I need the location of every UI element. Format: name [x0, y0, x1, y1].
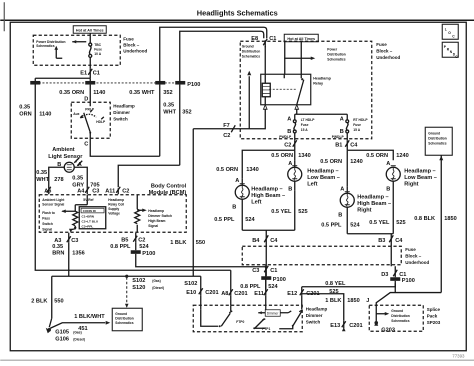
ground distribution arrow (relay coil ground) [247, 71, 251, 129]
svg-text:C3: C3 [252, 268, 259, 274]
svg-text:Power: Power [327, 47, 338, 51]
svg-text:Right: Right [357, 207, 371, 213]
wire 1 BLK 1850 from E12 area down to E13 [302, 294, 359, 321]
svg-text:C4: C4 [270, 238, 278, 244]
svg-text:0.35: 0.35 [19, 104, 30, 110]
connector B1|C4 (right fuse out) [335, 140, 358, 150]
svg-text:B4: B4 [252, 238, 260, 244]
terminal A4|C3 [77, 187, 99, 195]
wire BCM B5 524 routed right to E11 [136, 254, 266, 267]
svg-text:Left: Left [251, 199, 261, 205]
svg-text:Block –: Block – [405, 253, 422, 258]
wire 0.8 BLK 1850 down right side [439, 155, 443, 292]
svg-text:Aux: Aux [73, 112, 79, 116]
svg-text:B: B [338, 212, 342, 218]
svg-text:B: B [232, 204, 236, 210]
wire 0.35 GRY 705 (sensor A to BCM A4) [72, 167, 99, 188]
svg-text:C2: C2 [223, 133, 230, 139]
wire bottom right to splice pack [376, 293, 441, 306]
svg-text:0.8 PPL: 0.8 PPL [240, 284, 261, 290]
svg-text:Pass: Pass [42, 216, 50, 220]
label Splice Pack SP203 [427, 307, 441, 325]
svg-text:Distribution: Distribution [391, 314, 410, 318]
svg-text:Block –: Block – [376, 48, 393, 53]
svg-text:524: 524 [350, 222, 360, 228]
svg-text:Schematics: Schematics [242, 54, 260, 58]
svg-text:Underhood: Underhood [376, 55, 400, 60]
P100 blob (right, 525) [390, 266, 415, 284]
svg-text:Splice: Splice [427, 307, 441, 312]
svg-text:B5: B5 [121, 237, 128, 243]
BCM internal: flash-to-pass arrow and wire [61, 195, 87, 213]
svg-text:PRLP: PRLP [85, 107, 95, 111]
ground distribution schematics box (top right) [425, 127, 452, 155]
svg-text:Schematics: Schematics [391, 319, 409, 323]
svg-text:J: J [366, 298, 369, 304]
svg-text:Headlamp –: Headlamp – [404, 168, 435, 174]
svg-text:D: D [84, 96, 88, 102]
relay switch [284, 42, 304, 105]
svg-text:CONN ID: CONN ID [83, 209, 97, 213]
svg-text:Underhood: Underhood [405, 260, 429, 265]
svg-text:Headlamp: Headlamp [113, 103, 135, 108]
svg-text:PWDLP: PWDLP [332, 135, 345, 139]
svg-text:RT HDLP: RT HDLP [353, 118, 368, 122]
svg-text:1850: 1850 [347, 298, 359, 304]
svg-text:524: 524 [268, 284, 278, 290]
svg-text:Headlamp: Headlamp [108, 198, 124, 202]
label Headlamp Low Beam Left [307, 168, 340, 187]
label Headlamp Low Beam Right [404, 168, 437, 187]
dimmer2 internal: E12 lever [279, 305, 302, 329]
svg-text:(Diesel): (Diesel) [73, 337, 85, 341]
svg-text:Fuse: Fuse [123, 36, 134, 41]
BCM pin note Headlamp Relay Coil Supply Voltage [108, 198, 124, 216]
svg-text:A: A [386, 161, 390, 167]
terminal A11|C2 [105, 187, 129, 195]
svg-text:G105: G105 [55, 329, 69, 335]
svg-text:WHT: WHT [163, 109, 176, 115]
P100 blob (left, 524) [261, 266, 286, 289]
svg-text:F7: F7 [223, 123, 230, 129]
svg-text:HDLP: HDLP [96, 120, 106, 124]
svg-text:550: 550 [196, 240, 205, 246]
headlamp high beam right bulb [338, 186, 354, 234]
svg-text:Fuse: Fuse [301, 123, 309, 127]
svg-text:0.35 ORN: 0.35 ORN [59, 90, 84, 96]
wire 0.35 WHT 352 (first) [129, 85, 172, 157]
label Fuse Block Underhood (right) [376, 42, 400, 60]
Hot at All Times label (left) [73, 26, 106, 34]
svg-text:E10: E10 [186, 290, 196, 296]
BCM internal: A3 output wire with down arrow [69, 229, 73, 233]
svg-text:High Beam –: High Beam – [357, 201, 391, 207]
svg-text:Left: Left [307, 181, 317, 187]
svg-text:Supply: Supply [108, 207, 119, 211]
svg-text:Fuse: Fuse [376, 42, 387, 47]
svg-text:C1: C1 [270, 268, 277, 274]
ground G203 [374, 321, 395, 333]
svg-text:550: 550 [54, 298, 63, 304]
BCM pin note Flash to Pass Switch Signal [42, 211, 55, 232]
wire branch at y78 to left wire [35, 77, 90, 79]
wire from dimmer C down and right to WHT352 [90, 138, 160, 156]
svg-text:5V Ref: 5V Ref [83, 198, 94, 202]
svg-text:Pack: Pack [427, 313, 438, 318]
label Headlamp High Beam Right [357, 194, 391, 213]
wire 0.5 ORN 1240 branch (right pair feed) [347, 150, 393, 160]
svg-text:Headlamp –: Headlamp – [357, 194, 388, 200]
svg-text:1 BLK/WHT: 1 BLK/WHT [74, 314, 105, 320]
label Fuse Block Underhood (#3) [405, 247, 429, 265]
Power Distribution Schematics note + arrow [36, 40, 86, 48]
wire 0.5 YEL 525 (low beam left) [271, 190, 307, 230]
svg-text:C201: C201 [349, 323, 362, 329]
svg-text:525: 525 [329, 289, 338, 295]
connector C3|C1 [252, 266, 277, 274]
svg-text:Fuse: Fuse [405, 247, 416, 252]
svg-text:Ground: Ground [115, 312, 127, 316]
svg-text:524: 524 [245, 217, 255, 223]
svg-text:0.5 ORN: 0.5 ORN [216, 167, 238, 173]
ambient light sensor [48, 147, 83, 173]
svg-text:Hot at All Times: Hot at All Times [287, 37, 315, 41]
svg-text:Schematics: Schematics [115, 321, 133, 325]
wire 0.5 ORN 1340 branch (left pair feed) [242, 150, 295, 178]
BCM internal: resistor (5V ref) [71, 211, 78, 230]
svg-text:1240: 1240 [396, 153, 408, 159]
svg-text:1140: 1140 [39, 111, 51, 117]
splice S102/S120 [125, 275, 164, 308]
svg-text:P100: P100 [142, 251, 155, 257]
svg-text:Schematics: Schematics [327, 57, 345, 61]
wire 0.5 PPL 524 (high beam left) [214, 217, 255, 223]
svg-text:0.5 ORN: 0.5 ORN [366, 153, 388, 159]
svg-text:Flash to: Flash to [42, 211, 55, 215]
Ground Distribution Schematics note (in fuse box) [242, 44, 261, 58]
svg-text:0.8 BLK: 0.8 BLK [414, 216, 435, 222]
svg-text:Ambient Light: Ambient Light [42, 198, 65, 202]
wire relay coil ground to F7 and 1BLK550 [193, 109, 265, 129]
wire 0.8 PPL 524 from BCM B5 [110, 242, 149, 250]
fuse block underhood #1 dashed box [33, 35, 120, 65]
connector D3|C1 [381, 270, 406, 278]
svg-text:ORN: ORN [19, 111, 31, 117]
svg-text:Headlamp –: Headlamp – [251, 186, 282, 192]
svg-text:Ground: Ground [428, 131, 440, 135]
wire 0.5 ORN 1340 (low beam left feed) [271, 150, 310, 167]
label Body Control Module (BCM) [149, 183, 187, 196]
svg-text:1340: 1340 [246, 167, 258, 173]
headlamp low beam right bulb [386, 166, 400, 234]
headlamp high beam left bulb [232, 178, 249, 230]
splice pack SP203 dashed box [369, 305, 423, 331]
relay coil-armature dashed link [269, 88, 297, 90]
svg-text:Ambient: Ambient [52, 147, 75, 153]
Hot at All Times label (right) [284, 34, 318, 42]
connector C2 (left fuse out) [284, 140, 297, 150]
svg-text:525: 525 [298, 209, 307, 215]
BCM internal: headlamp dimmer high beam resistor + arrow [135, 195, 147, 233]
svg-text:Dimmer: Dimmer [267, 312, 279, 316]
svg-text:1 BLK: 1 BLK [325, 298, 341, 304]
svg-text:Schematics: Schematics [428, 141, 446, 145]
svg-text:1240: 1240 [350, 159, 362, 165]
headlamp relay box [261, 74, 332, 105]
svg-text:Switch: Switch [42, 222, 53, 226]
svg-text:(Gas): (Gas) [152, 279, 160, 283]
svg-text:C4: C4 [350, 142, 358, 148]
wire 0.5 YEL 525 (low beam right) [369, 220, 405, 226]
svg-text:Underhood: Underhood [123, 48, 147, 53]
svg-text:C2: C2 [284, 142, 291, 148]
relay coil [262, 74, 270, 105]
svg-text:0.5 ORN: 0.5 ORN [271, 153, 293, 159]
svg-text:0.5 ORN: 0.5 ORN [320, 159, 342, 165]
svg-text:451: 451 [78, 326, 87, 332]
page edge artifact left [3, 2, 5, 31]
wire 1 BLK 550 vertical (from relay coil ground) [170, 129, 205, 277]
top power rail 2 [180, 31, 264, 84]
svg-text:10 A: 10 A [94, 52, 101, 56]
svg-text:WHT: WHT [36, 177, 49, 183]
svg-text:Sensor Signal: Sensor Signal [42, 202, 64, 206]
fuse block underhood #2 dashed box [240, 41, 372, 139]
svg-text:PWDLP: PWDLP [279, 135, 292, 139]
svg-text:Block –: Block – [123, 42, 140, 47]
wire 2 BLK 550 down to ground [31, 276, 63, 327]
svg-text:Distribution: Distribution [242, 49, 261, 53]
wire E8 down to relay coil [264, 46, 266, 74]
wire 0.35 WHT 278 (sensor B to BCM A6) [36, 167, 64, 188]
svg-text:Signal: Signal [148, 224, 158, 228]
P100 dashed pass-through line [35, 82, 180, 84]
svg-text:P100: P100 [273, 277, 286, 283]
svg-text:(Diesel): (Diesel) [152, 286, 164, 290]
BCM internal: CONN ID table [79, 207, 106, 229]
RT HDLP fuse 15A [332, 116, 369, 140]
wire 0.8 YEL 525 from P100 to E12 [302, 281, 396, 295]
dimmer2 internal: Dimmer box [258, 310, 280, 317]
svg-text:278: 278 [54, 177, 63, 183]
wires into dimmer2 box [200, 295, 202, 305]
BCM pin note Ambient Light Sensor Signal [42, 198, 65, 207]
svg-text:Signal: Signal [42, 227, 52, 231]
wire 0.35 WHT 352 (second) to BCM A11 [118, 85, 191, 188]
svg-text:G106: G106 [55, 336, 69, 342]
svg-text:C2: C2 [138, 237, 145, 243]
terminal E13|C201 [330, 320, 362, 331]
svg-text:E13: E13 [330, 323, 340, 329]
svg-text:LT HDLP: LT HDLP [301, 118, 315, 122]
terminal E10|C201 [184, 281, 218, 296]
svg-text:Distribution: Distribution [327, 52, 346, 56]
ground distribution schematics box (bottom left) [112, 308, 142, 331]
svg-text:Dimmer: Dimmer [113, 110, 130, 115]
svg-text:0.5 PPL: 0.5 PPL [214, 217, 235, 223]
svg-text:Fuse: Fuse [94, 47, 102, 51]
label Headlamp High Beam Left [251, 186, 285, 205]
svg-text:0.35: 0.35 [163, 102, 174, 108]
svg-text:Ground: Ground [391, 309, 403, 313]
splice pack internal: ground dist arrow + note [376, 305, 410, 323]
BCM pin note Headlamp Dimmer Switch High Beam Signal [148, 209, 172, 228]
svg-text:352: 352 [163, 90, 172, 96]
wire A8 drop from ORN line [230, 270, 232, 295]
svg-text:77393: 77393 [452, 353, 465, 358]
svg-text:S120: S120 [132, 285, 145, 291]
svg-text:High Beam: High Beam [148, 219, 165, 223]
svg-text:Ground: Ground [242, 44, 254, 48]
svg-text:Headlamp: Headlamp [306, 306, 328, 311]
title underline rule [0, 19, 474, 21]
svg-text:Voltage: Voltage [108, 211, 120, 215]
wire 0.8 BLK 1850 label [414, 216, 456, 222]
svg-text:Low Beam –: Low Beam – [307, 175, 340, 181]
wire 0.35 ORN 1140 (left branch) [19, 85, 231, 271]
svg-text:C3=PPL: C3=PPL [82, 225, 94, 229]
corner code box 2 [442, 42, 458, 59]
corner code box 1 [442, 24, 458, 39]
svg-text:C1: C1 [93, 70, 100, 76]
svg-text:B1: B1 [335, 142, 342, 148]
svg-text:B3: B3 [378, 238, 385, 244]
svg-text:Dimmer: Dimmer [306, 313, 323, 318]
label Headlamp Dimmer Switch [113, 103, 135, 121]
svg-text:S102: S102 [132, 278, 145, 284]
svg-text:SP203: SP203 [427, 320, 441, 325]
terminal A8|C201 [221, 289, 247, 297]
svg-text:Relay: Relay [313, 81, 324, 85]
terminal E12|C201 [287, 287, 319, 297]
headlamp dimmer switch #2 dashed box [193, 305, 302, 332]
svg-text:FTP0: FTP0 [236, 320, 244, 324]
P100 connector blob (B5 wire) [131, 250, 156, 257]
svg-text:A: A [235, 178, 239, 184]
svg-text:Schematics: Schematics [36, 44, 54, 48]
svg-text:524: 524 [139, 244, 149, 250]
svg-text:E11: E11 [254, 291, 264, 297]
arrow up inside fuse box [54, 46, 62, 59]
svg-text:Low Beam –: Low Beam – [404, 175, 437, 181]
svg-text:O: O [448, 31, 451, 35]
svg-text:B: B [386, 186, 390, 192]
svg-text:0.5 YEL: 0.5 YEL [271, 209, 292, 215]
svg-text:0.35 WHT: 0.35 WHT [129, 90, 155, 96]
top power rail 1 [160, 27, 267, 84]
wire 0.5 ORN 1240 (high beam right feed) [320, 150, 362, 192]
svg-text:L: L [445, 27, 447, 31]
wire relay output to fuses [295, 109, 348, 120]
svg-text:0.5 PPL: 0.5 PPL [321, 222, 342, 228]
dimmer switch #1 contacts and lever [73, 102, 106, 138]
svg-text:1 BLK: 1 BLK [170, 240, 186, 246]
svg-text:525: 525 [396, 220, 405, 226]
svg-text:15 A: 15 A [353, 128, 360, 132]
svg-text:Body Control: Body Control [151, 183, 187, 189]
svg-text:0.35: 0.35 [52, 244, 63, 250]
svg-text:C2=LT BLU: C2=LT BLU [82, 220, 99, 224]
svg-text:A: A [287, 116, 291, 122]
svg-text:S102: S102 [184, 281, 197, 287]
svg-text:15 A: 15 A [301, 128, 308, 132]
dimmer2 internal: FTP1 lever E11 [253, 305, 270, 331]
svg-text:1340: 1340 [298, 153, 310, 159]
svg-text:Hot at All Times: Hot at All Times [76, 29, 104, 33]
svg-text:Right: Right [404, 181, 418, 187]
svg-text:C2: C2 [122, 188, 129, 194]
relay bottom pins [263, 105, 267, 110]
svg-text:High Beam –: High Beam – [251, 193, 285, 199]
headlamp low beam left bulb [288, 160, 302, 192]
svg-text:A: A [288, 161, 292, 167]
P100 inline connector blobs [30, 81, 40, 85]
svg-text:Relay Coil: Relay Coil [108, 202, 124, 206]
dimmer2 internal: left loop wire [200, 305, 202, 309]
svg-text:1140: 1140 [93, 90, 105, 96]
connector E8|C1 [251, 36, 276, 48]
svg-text:Headlamp: Headlamp [148, 209, 164, 213]
svg-text:0.5 YEL: 0.5 YEL [369, 220, 390, 226]
LT HDLP fuse 15A [279, 116, 315, 140]
faint scan line bottom [0, 359, 474, 361]
TBC Fuse 10A [89, 33, 102, 68]
title Headlights Schematics [197, 8, 278, 17]
terminal A3|C3 (BCM bottom) [54, 233, 78, 244]
svg-text:Switch: Switch [306, 319, 321, 324]
svg-text:BRN: BRN [52, 250, 64, 256]
svg-text:C1=BRN: C1=BRN [82, 215, 95, 219]
svg-text:0.35: 0.35 [36, 170, 47, 176]
svg-text:A: A [340, 186, 344, 192]
wire 0.5 PPL 524 (high beam right) [321, 222, 360, 228]
connector F7|C2 (fuse block) [223, 123, 235, 139]
wire 0.35 BRN 1356 [52, 242, 84, 276]
svg-text:C201: C201 [205, 290, 218, 296]
svg-text:A: A [340, 116, 344, 122]
svg-text:D3: D3 [381, 272, 388, 278]
wire E10 drop from ground bus [200, 276, 202, 295]
svg-text:B: B [288, 186, 292, 192]
svg-text:0.35: 0.35 [72, 175, 83, 181]
pass-through wires in fuse box #3 [265, 246, 267, 266]
svg-text:0.8 YEL: 0.8 YEL [325, 281, 346, 287]
svg-text:Headlamp –: Headlamp – [307, 168, 338, 174]
svg-text:1850: 1850 [444, 216, 456, 222]
svg-text:TBC: TBC [94, 43, 101, 47]
wire 0.35 ORN 1140 (to dimmer switch D) [59, 85, 105, 103]
BCM dashed box [39, 195, 186, 233]
terminal E11 + 0.8 PPL 524 from P100/C3 [240, 267, 278, 297]
label Fuse Block Underhood (left) [123, 36, 147, 53]
wire 1 BLK/WHT 451 to ground dist box [50, 314, 110, 332]
svg-text:352: 352 [182, 109, 191, 115]
svg-text:Dimmer Switch: Dimmer Switch [148, 214, 172, 218]
svg-text:1356: 1356 [72, 250, 84, 256]
svg-text:A8: A8 [221, 291, 228, 297]
fuse block underhood #3 dashed box [242, 246, 401, 265]
svg-text:E1: E1 [80, 70, 87, 76]
svg-text:C4: C4 [395, 238, 403, 244]
svg-text:0.8 PPL: 0.8 PPL [110, 244, 131, 250]
ground bus wire y276 [52, 275, 201, 277]
svg-text:Distribution: Distribution [115, 316, 134, 320]
svg-text:C3: C3 [92, 188, 99, 194]
svg-text:Switch: Switch [113, 116, 128, 121]
svg-text:A4: A4 [77, 188, 85, 194]
terminal B5|C2 (BCM bottom) [121, 233, 145, 244]
svg-text:P100: P100 [187, 82, 200, 88]
